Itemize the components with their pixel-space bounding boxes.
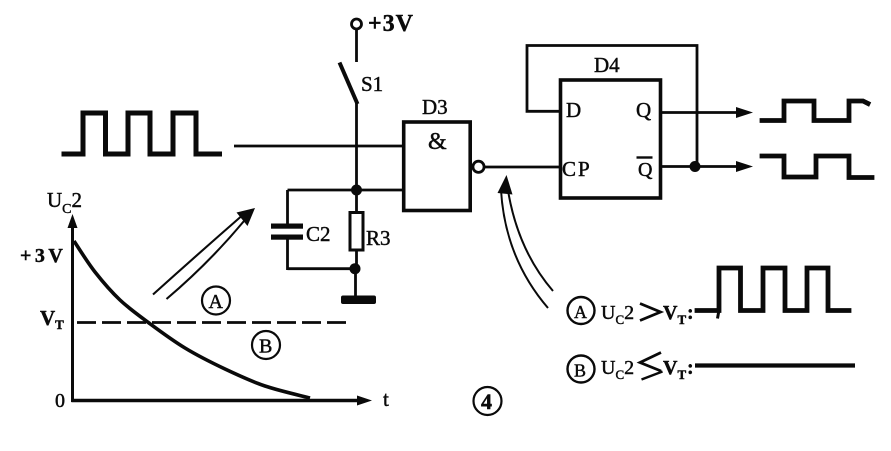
svg-text:B: B — [259, 336, 272, 358]
legend row B condition text — [601, 353, 694, 383]
curved arrow from graph to C2 node — [153, 208, 255, 299]
svg-text:Q: Q — [636, 98, 651, 122]
graph Y axis — [68, 214, 78, 402]
D flip-flop D4 — [561, 53, 661, 198]
legend row A circle — [568, 297, 595, 324]
legend row B circle — [568, 356, 595, 383]
+3V supply terminal — [352, 11, 415, 37]
wire: D3 output to D4 CP — [484, 166, 559, 169]
svg-text:CP: CP — [562, 157, 592, 181]
Qbar output waveform — [762, 156, 872, 178]
legend row B flat line — [695, 363, 855, 367]
wire: node to D3 pin 2 (C2/R3 node) — [288, 189, 404, 192]
wire Qbar output with arrow — [662, 161, 753, 172]
graph X axis — [72, 396, 373, 406]
svg-text:0: 0 — [55, 390, 65, 412]
junction at switch/R3/C2 node — [351, 185, 362, 196]
svg-text:D3: D3 — [422, 95, 448, 119]
wire from switch down to junction — [355, 103, 358, 190]
NAND gate D3 — [404, 95, 471, 211]
switch S1 — [340, 63, 384, 105]
input square waveform — [64, 113, 220, 154]
svg-text:D4: D4 — [594, 53, 620, 77]
feedback wire Qbar to D — [527, 46, 697, 167]
legend row A condition text — [601, 302, 694, 327]
ground — [341, 296, 376, 305]
svg-text:Q: Q — [638, 159, 653, 181]
svg-text:t: t — [383, 387, 389, 411]
D3 output inversion bubble — [473, 161, 484, 172]
resistor R3 — [350, 190, 391, 269]
svg-text:A: A — [574, 302, 587, 322]
node B circle on graph — [252, 331, 280, 359]
wire: input to D3 pin 1 — [234, 145, 403, 148]
svg-text:&: & — [428, 129, 447, 155]
svg-text:A: A — [209, 291, 224, 313]
junction on Qbar line — [690, 161, 701, 172]
figure number 4 — [474, 387, 502, 415]
svg-text:B: B — [574, 361, 586, 381]
wire: C2 bottom to junction — [288, 267, 356, 270]
VT dashed threshold line — [77, 321, 346, 324]
wire to ground — [354, 269, 357, 297]
wire from +3V terminal down to switch — [355, 29, 358, 62]
legend row A square waveform — [718, 310, 720, 319]
svg-text:+3V: +3V — [368, 11, 414, 37]
svg-text:C2: C2 — [306, 222, 331, 246]
capacitor C2 — [271, 190, 331, 270]
svg-text:D: D — [566, 98, 581, 122]
junction at R3 bottom — [350, 263, 361, 274]
svg-text:S1: S1 — [361, 72, 383, 96]
curved arrow from legend to CP wire — [498, 175, 554, 308]
svg-text:4: 4 — [481, 389, 492, 414]
svg-text:R3: R3 — [366, 226, 391, 250]
Q output waveform — [762, 101, 868, 121]
svg-text:+3V: +3V — [20, 245, 66, 267]
capacitor discharge curve — [74, 241, 310, 398]
wire Q output with arrow — [662, 107, 753, 118]
node A circle on graph — [202, 287, 230, 315]
